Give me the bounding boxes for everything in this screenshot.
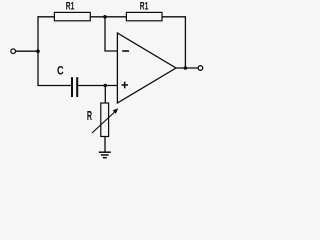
resistor R1 (input) (54, 0, 90, 21)
svg-text:R1: R1 (66, 0, 75, 12)
node C junction (104, 84, 108, 88)
wire input to node A (16, 50, 38, 52)
svg-text:R1: R1 (140, 0, 149, 12)
node OUT junction (184, 66, 188, 70)
wire capacitor to op-amp non-inverting input (78, 85, 117, 87)
wire node A up to resistor R1 input branch (38, 17, 54, 51)
op-amp U1 (117, 33, 176, 103)
output terminal (198, 66, 203, 71)
wire feedback resistor to output node (162, 17, 185, 68)
node A junction (36, 49, 40, 53)
resistor R1 (feedback) (126, 0, 162, 21)
wire node C down to potentiometer R (104, 86, 106, 104)
wire node A down to capacitor C (38, 51, 71, 85)
input terminal (11, 49, 16, 54)
wire potentiometer to ground (104, 137, 106, 153)
ground (99, 152, 111, 158)
node B junction (103, 15, 107, 19)
capacitor C (57, 65, 77, 97)
wire node B down to op-amp inverting input (105, 17, 117, 51)
wire R1 to node B to resistor R1 feedback (90, 16, 126, 18)
output wire (176, 67, 198, 69)
svg-text:R: R (87, 110, 93, 124)
svg-text:C: C (57, 65, 64, 78)
potentiometer R (87, 103, 118, 137)
